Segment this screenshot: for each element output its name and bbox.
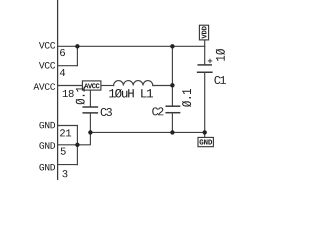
wire GND symbol stub — [204, 132, 206, 137]
pin name VCC pin 6 — [39, 42, 55, 49]
wire AVCC box down to C3 — [89, 90, 91, 107]
label C1 value 10 — [216, 49, 225, 61]
wire pin5 junction to GND net — [77, 132, 90, 144]
pin name GND pin 21 — [39, 122, 55, 129]
label C2 value 0.1 — [182, 89, 191, 107]
capacitor C1 top plate — [198, 64, 211, 66]
wire VDD stub — [204, 40, 206, 46]
wire C2 bottom to GND net — [171, 113, 173, 133]
pin 18 wire AVCC — [58, 85, 83, 87]
label L1 value 10uH — [109, 89, 153, 98]
pin 21 wire GND — [58, 125, 78, 127]
ferrite bead box on AVCC pin — [82, 81, 101, 90]
ground symbol GND box — [198, 137, 213, 146]
power symbol VDD text — [202, 26, 207, 38]
junction dot GND pins node — [75, 143, 79, 147]
capacitor C2 top plate — [166, 105, 179, 107]
capacitor C2 bottom plate — [166, 112, 179, 114]
junction dot L1/C2 node — [170, 83, 174, 87]
pin number 3 — [62, 170, 67, 177]
pin 6 wire VCC — [58, 45, 78, 47]
capacitor C3 top plate — [83, 106, 97, 108]
pin 3 wire GND — [58, 164, 78, 166]
pin number 6 — [60, 49, 65, 56]
pin 4 wire VCC — [58, 65, 78, 67]
pin number 21 — [60, 129, 71, 136]
junction dot C2 top node — [170, 44, 174, 48]
wire pin4-pin6 vertical connect — [76, 46, 78, 65]
IC U1 right body edge — [57, 0, 59, 180]
wire C3 bottom to GND net — [89, 113, 91, 132]
inductor L1 coil — [114, 81, 153, 86]
pin name GND pin 3 — [39, 164, 55, 171]
wire GND net horizontal — [90, 131, 204, 133]
ferrite bead box text AVCC — [84, 83, 100, 88]
wire VCC top net — [77, 45, 204, 47]
label C2 — [152, 107, 163, 115]
ground symbol GND text — [199, 139, 212, 144]
capacitor C1 bottom plate — [198, 71, 212, 73]
junction dot C1 bottom node — [203, 130, 207, 134]
pin name AVCC pin 18 — [33, 83, 55, 90]
pin number 18 — [63, 90, 74, 97]
label C3 value 0.1 — [76, 87, 85, 105]
pin name VCC pin 4 — [39, 62, 55, 69]
C1 polarity plus sign — [208, 60, 211, 62]
capacitor C3 bottom plate — [83, 112, 97, 114]
wire VDD node down to C1 — [204, 46, 206, 65]
pin number 5 — [61, 148, 66, 155]
junction dot VCC pins node — [75, 44, 79, 48]
junction dot C2 bottom node — [170, 130, 174, 134]
pin number 4 — [60, 69, 65, 76]
power symbol VDD box — [199, 25, 208, 40]
label C3 — [101, 108, 112, 116]
wire AVCC box to L1 — [101, 85, 114, 87]
wire L1 to C2 node — [153, 85, 173, 87]
label C1 — [214, 76, 225, 84]
wire GND pins vertical connect — [76, 126, 78, 165]
wire C1 bottom to GND net — [204, 72, 206, 132]
pin name GND pin 5 — [39, 142, 55, 149]
junction dot C3 bottom node — [88, 130, 92, 134]
wire C2 branch vertical — [171, 46, 173, 106]
pin 5 wire GND — [58, 144, 78, 146]
